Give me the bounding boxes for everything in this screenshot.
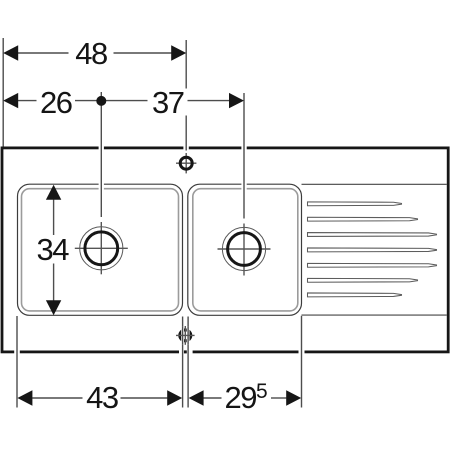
right drain inner circle — [228, 233, 261, 266]
arrowhead 43 right — [167, 390, 182, 405]
bottom extension line x=300.4 — [301, 316, 303, 408]
centre line of left drain (x=101.3) — [100, 92, 102, 217]
arrowhead 29.5 left — [189, 390, 204, 405]
arrowhead 29.5 right — [286, 390, 301, 405]
label 37 — [152, 85, 184, 120]
label 29^5 — [225, 380, 267, 415]
left drain crosshair — [75, 222, 128, 274]
bottom extension line x=187.7 — [187, 317, 189, 408]
label 48 — [75, 36, 107, 71]
drainboard groove 2 — [308, 217, 418, 221]
drainboard groove 3 — [308, 233, 437, 237]
extension line for 48 right / tap hole centre (x=186) — [185, 40, 187, 151]
drainboard groove 7 — [308, 293, 402, 297]
node dot at 26/37 junction — [96, 96, 106, 106]
dimension line 48 — [18, 52, 172, 54]
label 43 — [86, 380, 118, 415]
extension line left (x=3) for 48 and 26 — [2, 38, 4, 147]
svg-text:43: 43 — [86, 380, 118, 415]
dimension line 26 / 37 — [18, 100, 229, 102]
dimension line 29.5 — [203, 397, 286, 399]
left basin inner rim — [22, 189, 179, 311]
left basin outer rim — [18, 184, 183, 315]
right drain outer circle — [222, 227, 265, 270]
drainboard top edge line — [302, 183, 447, 185]
arrowhead 37 right — [229, 93, 244, 108]
label 26 — [40, 85, 72, 120]
arrowhead 34 up — [46, 185, 61, 200]
drainboard groove 6 — [308, 278, 418, 282]
drainboard groove 5 — [308, 263, 437, 267]
tap hole symbol — [176, 153, 196, 173]
left drain outer circle — [80, 227, 123, 270]
arrowhead 43 left — [17, 390, 32, 405]
svg-text:26: 26 — [40, 85, 72, 120]
white gaps where extension lines cross sink bottom edge — [14, 349, 304, 354]
arrowhead 48 right — [171, 45, 186, 60]
right basin inner rim — [193, 189, 298, 311]
drainboard groove 4 — [308, 248, 437, 252]
bottom extension line x=183.3 — [182, 317, 184, 408]
svg-text:34: 34 — [37, 232, 70, 267]
svg-text:48: 48 — [75, 36, 107, 71]
arrowhead 48 left — [3, 45, 18, 60]
dimension line 43 — [32, 397, 167, 399]
bottom extension line x=17 — [16, 316, 18, 408]
svg-text:37: 37 — [152, 85, 184, 120]
overflow hole symbol at front edge — [176, 326, 195, 345]
white gaps where centre lines cross basin rims — [99, 182, 247, 192]
drainboard bottom edge line — [302, 314, 447, 316]
right basin outer rim — [188, 184, 302, 315]
sink outer outline — [2, 148, 448, 352]
label 34 — [37, 232, 70, 267]
vertical dimension 34 line — [53, 200, 55, 301]
arrowhead 26 left — [3, 93, 18, 108]
centre line of right drain (x=244) — [243, 93, 245, 219]
arrowhead 34 down — [46, 300, 61, 315]
drainboard groove 1 — [308, 202, 402, 206]
left drain inner circle — [85, 232, 118, 265]
right drain crosshair — [218, 224, 271, 276]
white gaps where centre lines cross sink top edge — [99, 146, 247, 151]
